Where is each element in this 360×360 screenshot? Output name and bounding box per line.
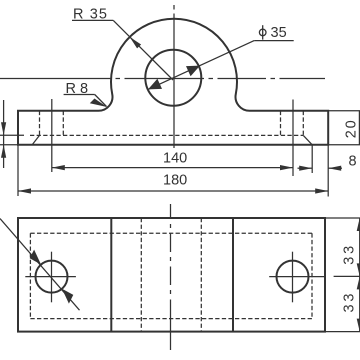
svg-text:33: 33: [342, 243, 358, 265]
dimension 8: dimension lines with inward arrows: [298, 167, 313, 169]
dimensions 33/33: dimension line at right edge with arrows: [359, 218, 360, 332]
front view: vertical centerline of boss: [173, 5, 175, 148]
svg-text:R 35: R 35: [73, 7, 108, 23]
front view: hidden lines of left hole: [39, 111, 41, 136]
dimension 20: extension lines: [328, 110, 360, 112]
front view: horizontal centerline of hole: [0, 78, 325, 80]
plan view: right hole circle: [277, 261, 309, 293]
dimension 180: dimension line with arrows: [18, 190, 328, 192]
plan view: hidden lines of phi35 hole: [140, 218, 142, 332]
svg-text:180: 180: [163, 173, 187, 189]
plan view: hidden outline of bottom recess: [30, 232, 312, 234]
plan view: vertical centerline: [170, 204, 172, 350]
text phi 35: [259, 25, 266, 39]
dimension 180: extension lines: [17, 145, 19, 196]
plan view: outer rectangle: [18, 218, 325, 332]
plan view: boss silhouette edge right: [232, 218, 234, 332]
plan view: hole diameter leader (label cropped at left): [0, 219, 80, 311]
front view: recess ramp edge right: [303, 135, 312, 144]
dimension 140: extension/dimension line with arrows: [52, 167, 293, 169]
svg-text:8: 8: [349, 153, 357, 169]
front view: left hole axis line: [51, 99, 53, 172]
front view: recess ramp edge left: [32, 135, 39, 144]
leader R8: [64, 94, 95, 96]
front view: right hole axis line: [292, 100, 294, 177]
left edge small dimension (recess depth, label cropped): [3, 100, 5, 168]
front view: hole circle phi35: [145, 50, 201, 106]
plan view: left hole circle: [36, 261, 68, 293]
leader phi35: [149, 41, 255, 90]
front view: base and boss outline: [18, 19, 328, 145]
front view: hidden lines of right hole: [280, 111, 282, 136]
plan view: right hole crosshair: [269, 276, 324, 278]
plan view: left hole crosshair: [25, 276, 76, 278]
svg-text:140: 140: [163, 150, 187, 166]
svg-text:35: 35: [271, 25, 287, 41]
dimension 8: extension line: [311, 145, 313, 173]
front view: hidden line of bottom recess: [30, 134, 303, 136]
svg-text:R 8: R 8: [66, 81, 89, 97]
plan view: boss silhouette edge left: [110, 218, 112, 332]
dimensions 33/33: extension lines: [325, 217, 360, 219]
dimension 20: dimension line at right edge: [358, 111, 360, 145]
svg-text:20: 20: [344, 118, 360, 138]
svg-text:33: 33: [342, 291, 358, 313]
leader R35: [72, 19, 113, 21]
